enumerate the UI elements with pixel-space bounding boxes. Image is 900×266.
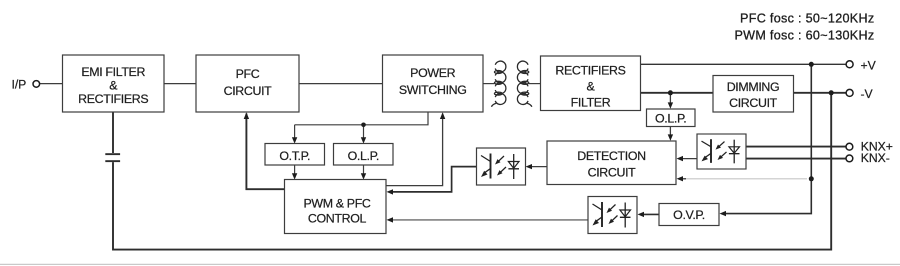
svg-text:KNX-: KNX- bbox=[861, 151, 890, 165]
svg-text:CIRCUIT: CIRCUIT bbox=[588, 166, 637, 180]
svg-text:DETECTION: DETECTION bbox=[577, 149, 645, 163]
svg-text:O.L.P.: O.L.P. bbox=[348, 149, 379, 163]
svg-text:DIMMING: DIMMING bbox=[727, 80, 780, 94]
svg-text:O.T.P.: O.T.P. bbox=[279, 149, 310, 163]
svg-text:O.L.P.: O.L.P. bbox=[655, 112, 686, 126]
svg-text:&: & bbox=[587, 80, 596, 94]
svg-text:-V: -V bbox=[861, 87, 874, 101]
svg-text:+V: +V bbox=[861, 58, 877, 72]
svg-text:CONTROL: CONTROL bbox=[308, 211, 367, 225]
svg-text:POWER: POWER bbox=[410, 66, 455, 80]
svg-text:PFC: PFC bbox=[236, 67, 260, 81]
svg-text:PWM fosc : 60~130KHz: PWM fosc : 60~130KHz bbox=[734, 29, 874, 43]
svg-text:I/P: I/P bbox=[12, 78, 27, 92]
svg-text:SWITCHING: SWITCHING bbox=[399, 83, 467, 97]
svg-text:RECTIFIERS: RECTIFIERS bbox=[555, 64, 625, 78]
svg-text:EMI FILTER: EMI FILTER bbox=[81, 65, 145, 79]
svg-text:PWM & PFC: PWM & PFC bbox=[303, 197, 370, 211]
svg-text:RECTIFIERS: RECTIFIERS bbox=[78, 92, 148, 106]
svg-text:CIRCUIT: CIRCUIT bbox=[729, 96, 778, 110]
svg-text:&: & bbox=[109, 78, 118, 92]
svg-text:PFC fosc : 50~120KHz: PFC fosc : 50~120KHz bbox=[740, 12, 874, 26]
svg-text:CIRCUIT: CIRCUIT bbox=[224, 84, 273, 98]
svg-text:O.V.P.: O.V.P. bbox=[673, 208, 705, 222]
svg-text:FILTER: FILTER bbox=[571, 95, 611, 109]
